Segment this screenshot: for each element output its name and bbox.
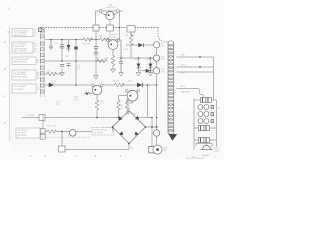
element E2 (dual box) bbox=[194, 137, 217, 142]
bridge corner dot bottom bbox=[128, 143, 130, 145]
bus component box A bbox=[93, 25, 99, 31]
junction x150.5 y58 bbox=[150, 57, 152, 59]
connector strip J1 pin squares bbox=[41, 29, 44, 93]
svg-text:C2: C2 bbox=[37, 89, 39, 91]
left bus vertical right block bbox=[193, 99, 195, 151]
junction y131.5 x62 bbox=[61, 131, 63, 133]
line y117 long bbox=[22, 117, 152, 119]
junction y117 x156.6 bbox=[156, 117, 158, 119]
wire P1-P2 bbox=[156, 48, 158, 55]
transistor Q2 labels bbox=[109, 35, 117, 39]
bridge diode bottom-right bbox=[135, 131, 139, 135]
resistor R11 on y131.5 bbox=[46, 130, 58, 134]
bridge diode bottom-left bbox=[119, 131, 123, 135]
svg-text:-6-: -6- bbox=[44, 155, 47, 158]
junction y117 x97 bbox=[96, 117, 98, 119]
capacitor C1 at x51 bbox=[49, 40, 53, 51]
capacitor C6 x121 bbox=[119, 40, 123, 70]
line y45 to Q3 bbox=[126, 44, 153, 46]
connector row CN1 bbox=[198, 105, 214, 110]
svg-text:R31: R31 bbox=[125, 35, 128, 37]
ground below R5 bbox=[111, 67, 116, 73]
bell top wire bbox=[196, 143, 217, 147]
transistor Q2 base dot bbox=[110, 44, 112, 46]
diode D1 at x68.5 bbox=[67, 40, 71, 68]
dashed drop to coil bbox=[158, 28, 168, 43]
wire bridge bottom drop bbox=[128, 144, 130, 150]
junction rail x51 bbox=[50, 39, 52, 41]
junction x138.5 y58 bbox=[138, 57, 140, 59]
bus component box B bbox=[107, 25, 114, 31]
photo/LED circle P2 bbox=[153, 55, 159, 61]
line y67 to right bbox=[177, 66, 214, 68]
svg-text:TEL-10 SCHEMATIC: TEL-10 SCHEMATIC bbox=[186, 157, 205, 160]
ground x150.5 bbox=[148, 70, 153, 76]
transistor Q1 shoulder terminal left bbox=[99, 10, 102, 13]
resistor R4 on y74 bbox=[46, 72, 58, 76]
capacitor blob on x76 bbox=[74, 47, 77, 50]
diode D5 x138.5 bbox=[137, 58, 141, 70]
junction rail x62 bbox=[61, 39, 63, 41]
receiver RCV box bbox=[149, 147, 154, 153]
bottom pin box bbox=[59, 146, 66, 152]
label P1 bbox=[161, 43, 165, 47]
svg-text:A2: A2 bbox=[37, 61, 39, 64]
svg-text:S1NB: S1NB bbox=[131, 114, 137, 116]
svg-text:SW HOOK: SW HOOK bbox=[18, 135, 28, 137]
pin labels U3-U5 bbox=[37, 59, 39, 92]
svg-text:C41: C41 bbox=[54, 43, 57, 45]
connector row CN2 bbox=[198, 112, 214, 117]
svg-text:DP 10PPS: DP 10PPS bbox=[94, 132, 104, 134]
wire Q1 emitter stem bbox=[109, 20, 111, 25]
line y88 handset bbox=[177, 88, 198, 90]
label bell right bbox=[214, 148, 220, 153]
transistor Q4 base dot bbox=[129, 95, 131, 97]
svg-text:BK 4: BK 4 bbox=[181, 86, 185, 88]
block box U3 bbox=[12, 57, 36, 65]
wire P2-P3 bbox=[156, 61, 158, 67]
block box U2 (line interface) bbox=[12, 42, 33, 53]
junction rail2 x62 bbox=[61, 60, 63, 62]
svg-text:-5-: -5- bbox=[29, 155, 32, 158]
bridge rectifier DB1 outline bbox=[113, 111, 146, 144]
connector strip J1 rails bbox=[40, 28, 44, 97]
fuse squiggle bbox=[197, 89, 204, 100]
wire Q1 inner lead right bbox=[112, 12, 117, 15]
wire R6 to line y45 bbox=[130, 46, 132, 58]
svg-text:2SB77 HV: 2SB77 HV bbox=[106, 7, 116, 9]
dashed lead left of bridge bbox=[103, 127, 112, 129]
svg-text:WH 1: WH 1 bbox=[181, 55, 186, 57]
svg-text:LED: LED bbox=[161, 72, 165, 74]
svg-text:R46: R46 bbox=[99, 36, 102, 38]
resistor R8 below Q3 bbox=[95, 99, 99, 111]
label P3 bbox=[161, 69, 165, 73]
svg-text:L1 LINE: L1 LINE bbox=[27, 115, 35, 117]
main vertical x76 bbox=[75, 40, 77, 86]
pin labels U1 bbox=[34, 30, 37, 37]
block box U6 (bottom left) bbox=[16, 128, 40, 138]
diode D3 on y45 bbox=[138, 43, 143, 47]
label box C bbox=[125, 35, 134, 37]
wire Q1 right lead down bbox=[119, 11, 121, 39]
svg-text:P4: P4 bbox=[34, 51, 36, 53]
line y85 from strip bbox=[45, 84, 76, 86]
wire R9 down bbox=[118, 111, 120, 118]
svg-text:PTR: PTR bbox=[161, 59, 165, 61]
svg-text:22: 22 bbox=[121, 107, 123, 109]
dot y67 bbox=[199, 66, 201, 68]
svg-text:R48: R48 bbox=[105, 58, 108, 60]
svg-text:AMP MC34014: AMP MC34014 bbox=[14, 61, 28, 64]
bridge diode top-left bbox=[118, 116, 122, 120]
labels diode row bbox=[134, 59, 150, 61]
wire box C drop bbox=[130, 32, 132, 36]
bridge diode top-right bbox=[135, 116, 139, 120]
transistor Q4 body bbox=[127, 90, 138, 101]
svg-text:-8-: -8- bbox=[94, 155, 97, 158]
vertical x156.6 low bbox=[156, 118, 158, 144]
base component of Q3 bbox=[84, 92, 92, 95]
left margin line bbox=[9, 26, 11, 141]
wire Q4 emitter bbox=[127, 99, 133, 103]
label R5 bbox=[105, 58, 121, 60]
capacitor C2 at x62 bbox=[60, 45, 64, 49]
svg-text:224: 224 bbox=[56, 104, 59, 106]
resistor R6 below box C bbox=[129, 34, 133, 46]
text label mid1 bbox=[77, 66, 80, 71]
diode D4 on y71 bbox=[146, 69, 151, 73]
svg-text:LED: LED bbox=[161, 45, 165, 47]
main rail (y=39.5) bbox=[45, 39, 107, 41]
wire bridge right lead bbox=[146, 126, 157, 128]
bridge corner dot right bbox=[145, 126, 147, 128]
svg-text:HOOK SWITCH: HOOK SWITCH bbox=[94, 130, 108, 132]
transistor Q1 body bbox=[106, 11, 114, 19]
transistor Q4 shoulder left bbox=[125, 89, 128, 92]
label C mid bbox=[56, 102, 59, 106]
svg-text:2SC1815: 2SC1815 bbox=[109, 37, 117, 39]
cord coil L1 bbox=[168, 41, 174, 135]
pin box U6 bottom bbox=[40, 134, 45, 139]
capacitor C4 on x96 bbox=[94, 46, 98, 54]
svg-text:R45 1W: R45 1W bbox=[83, 44, 90, 46]
diode D2 on y85 bbox=[49, 83, 55, 87]
svg-text:D46: D46 bbox=[147, 59, 150, 61]
junction right lead on bus bbox=[119, 27, 121, 29]
label R8 bbox=[100, 101, 103, 105]
svg-text:R61 CON: R61 CON bbox=[47, 126, 56, 128]
junction x76 y61 bbox=[75, 60, 77, 62]
halftone grid main sheet bbox=[10, 33, 163, 152]
wire Q1 left lead down bbox=[95, 11, 97, 25]
resistor R9 bbox=[117, 99, 121, 111]
receiver RCV dot bbox=[156, 148, 159, 151]
label handset bbox=[181, 91, 191, 94]
svg-text:-10-: -10- bbox=[191, 156, 195, 159]
transistor Q2 body bbox=[108, 40, 118, 50]
junction y117 x118.5 bbox=[118, 117, 120, 119]
vertical x152 bbox=[151, 118, 153, 147]
wire below P3 bbox=[156, 74, 158, 118]
resistor R10 bbox=[125, 99, 129, 111]
bus end pin box bbox=[38, 28, 41, 31]
svg-text:TONE: TONE bbox=[214, 151, 220, 153]
resistor R1 on rail bbox=[82, 38, 94, 42]
transistor Q3 shoulder right bbox=[100, 84, 103, 87]
label Q3 bbox=[74, 97, 79, 101]
strip line y74 bbox=[45, 73, 62, 75]
halftone grid right-bottom block bbox=[163, 110, 222, 157]
svg-text:R41: R41 bbox=[47, 71, 50, 73]
diode D7 on y85 bbox=[137, 83, 143, 87]
svg-text:D43: D43 bbox=[128, 81, 131, 83]
photo/LED circle P3 bbox=[153, 68, 159, 74]
svg-text:NET CONTROL: NET CONTROL bbox=[14, 51, 29, 53]
svg-text:-B: -B bbox=[4, 68, 7, 71]
label RCV bbox=[164, 148, 169, 153]
transistor Q1 base dot bbox=[108, 14, 110, 16]
dashed annotation box bbox=[92, 128, 114, 135]
ground x121 bbox=[119, 70, 124, 76]
receiver RCV circle bbox=[153, 145, 162, 154]
dot y57 bbox=[199, 56, 201, 58]
svg-text:-C: -C bbox=[4, 95, 7, 98]
line y57 to right bbox=[177, 56, 214, 58]
line y131.5 bbox=[45, 131, 112, 133]
svg-text:R51 10: R51 10 bbox=[113, 81, 119, 83]
transistor Q1 collector line bbox=[96, 10, 124, 12]
varistor circle V2 bbox=[153, 130, 159, 136]
wire Q2 emitter stem bbox=[112, 50, 114, 55]
transistor Q3 body bbox=[92, 85, 102, 95]
line y58 into P2 bbox=[121, 57, 153, 59]
junction x156.6 y127 bbox=[156, 126, 158, 128]
wire Q1 inner lead left bbox=[101, 12, 107, 15]
capacitor C3 at x62 lower bbox=[60, 64, 64, 66]
svg-text:KEYPAD SCAN: KEYPAD SCAN bbox=[14, 76, 28, 79]
transistor Q3 shoulder left bbox=[91, 84, 94, 87]
block box U5 bbox=[12, 84, 36, 93]
svg-text:10u: 10u bbox=[52, 83, 55, 85]
wire box B stem bbox=[109, 31, 111, 36]
junction y117 x152 bbox=[151, 117, 153, 119]
svg-text:R52: R52 bbox=[96, 58, 99, 60]
photo/LED circle P1 bbox=[153, 42, 159, 48]
dashed supply bus bbox=[40, 27, 158, 29]
svg-text:C43: C43 bbox=[65, 56, 68, 58]
bus component box C bbox=[127, 26, 135, 32]
annotation text bbox=[94, 130, 108, 135]
bell B1 bbox=[201, 143, 213, 150]
junction x152 y127 bbox=[151, 126, 153, 128]
svg-text:600: 600 bbox=[164, 150, 167, 152]
right bus vertical bbox=[214, 57, 217, 143]
vertical x96 from box A bbox=[95, 31, 97, 73]
label P2 bbox=[161, 56, 165, 60]
junction x121 y58 bbox=[120, 57, 122, 59]
wire R8 to y117 bbox=[96, 111, 98, 118]
connector row CN3 bbox=[198, 119, 214, 124]
svg-text:TH1: TH1 bbox=[115, 34, 119, 36]
transistor Q1 shoulder terminal right bbox=[116, 10, 119, 13]
svg-text:4.7: 4.7 bbox=[100, 103, 103, 105]
bridge corner dot left bbox=[112, 126, 114, 128]
transistor Q2 shoulder right bbox=[117, 39, 120, 42]
wire R10 to diamond top bbox=[127, 111, 129, 115]
transistor Q3 base dot bbox=[94, 89, 96, 91]
pin box U6 top bbox=[40, 129, 45, 134]
line y72 to right bbox=[177, 71, 214, 73]
svg-text:REGULATOR: REGULATOR bbox=[14, 34, 26, 37]
wire bridge left corner jog bbox=[112, 127, 114, 132]
line y85 mid bbox=[76, 84, 157, 86]
svg-text:S1: S1 bbox=[34, 35, 36, 37]
line y149.5 bottom bbox=[65, 149, 129, 151]
wire rail into Q2 bbox=[107, 39, 120, 41]
svg-text:SC BU8992: SC BU8992 bbox=[14, 89, 24, 91]
svg-text:2SD: 2SD bbox=[74, 99, 78, 101]
resistor R3 on rail2 right bbox=[96, 59, 108, 63]
ground under C3 bbox=[60, 70, 65, 76]
junction y85 x156 bbox=[156, 84, 158, 86]
ground x138.5 bbox=[136, 70, 141, 76]
transistor Q4 shoulder right bbox=[137, 89, 140, 92]
pin labels U2 bbox=[34, 43, 36, 53]
svg-text:DB1: DB1 bbox=[127, 108, 131, 110]
junction rail x76 bbox=[75, 39, 77, 41]
resistor R2 on rail bbox=[99, 38, 111, 42]
wire x62 drop bbox=[61, 40, 63, 71]
dashed line y137 bbox=[40, 136, 90, 138]
svg-text:-D: -D bbox=[4, 122, 7, 125]
mic element M1 (dual box) bbox=[194, 97, 217, 102]
junction rail x96 bbox=[95, 39, 97, 41]
rail2 (y=61) bbox=[45, 60, 104, 62]
resistor R7 on y85 bbox=[114, 83, 126, 87]
line y71 diode into P3 bbox=[139, 70, 154, 72]
component box on y117 bbox=[39, 115, 45, 121]
svg-text:220: 220 bbox=[117, 58, 120, 60]
svg-text:D45: D45 bbox=[134, 59, 137, 61]
svg-text:B3: B3 bbox=[37, 78, 39, 80]
wire Q3 emitter bbox=[96, 95, 98, 99]
wire x147.5 drop bbox=[147, 85, 149, 118]
resistor R5 below Q2 bbox=[111, 55, 115, 67]
wire Q4 base left bbox=[119, 96, 128, 100]
svg-text:GN 3: GN 3 bbox=[181, 73, 185, 75]
svg-text:-A: -A bbox=[4, 41, 7, 44]
ground under x96 bbox=[94, 73, 99, 79]
block box U1 (AC input) bbox=[12, 29, 33, 37]
block box U4 bbox=[12, 70, 36, 80]
wire x62 drop bbox=[61, 132, 63, 147]
svg-text:HANDSET: HANDSET bbox=[181, 91, 191, 94]
text label TEL bbox=[52, 81, 55, 86]
wire U6 strip vertical bbox=[42, 115, 44, 129]
svg-text:RINGER: RINGER bbox=[202, 155, 210, 157]
diode D6 x150.5 bbox=[149, 58, 153, 70]
element E1 (dual box) bbox=[194, 125, 217, 130]
wire to receiver bbox=[156, 143, 158, 145]
svg-text:60: 60 bbox=[131, 148, 133, 150]
label R9 R10 bbox=[121, 105, 123, 109]
transistor Q1 label bbox=[106, 5, 116, 10]
svg-text:-9-: -9- bbox=[119, 155, 122, 158]
varistor circle V1 bbox=[69, 130, 76, 137]
transistor Q2 shoulder left bbox=[106, 39, 109, 42]
svg-text:473: 473 bbox=[77, 68, 80, 70]
junction y85 x76 bbox=[75, 84, 77, 86]
junction x147.5 y85 bbox=[147, 84, 149, 86]
label DB1 side bbox=[131, 114, 137, 150]
label DB1 bbox=[127, 108, 131, 110]
svg-text:RD 2: RD 2 bbox=[181, 65, 185, 67]
cord arrow bbox=[168, 134, 177, 141]
svg-text:-7-: -7- bbox=[74, 155, 77, 158]
svg-text:R32: R32 bbox=[125, 49, 128, 51]
